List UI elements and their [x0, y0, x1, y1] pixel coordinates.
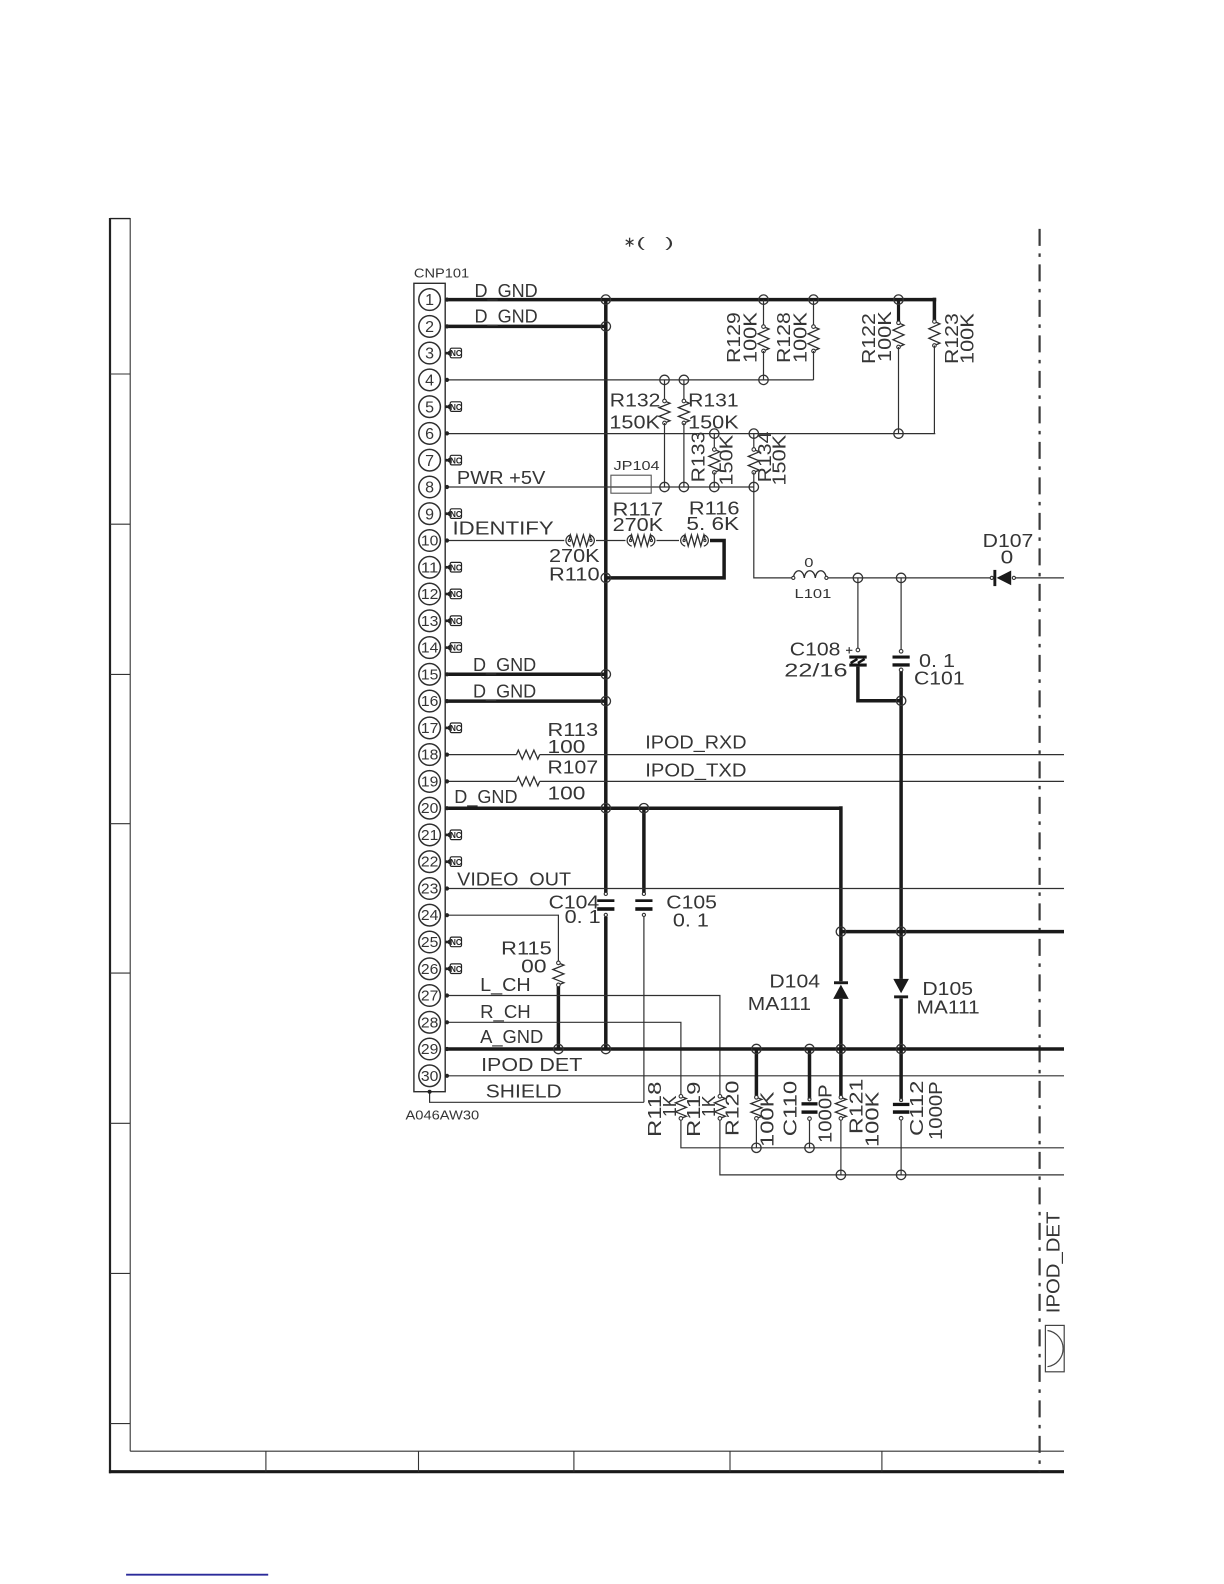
svg-text:NC: NC	[450, 456, 462, 465]
svg-text:NC: NC	[450, 858, 462, 867]
svg-text:29: 29	[421, 1042, 439, 1058]
resistor R121	[835, 1097, 846, 1118]
svg-text:D_GND: D_GND	[475, 307, 538, 328]
NC marker pin 7	[445, 459, 448, 462]
wire C101/C108 chain vertical	[900, 578, 902, 651]
junction dots bottom rails	[752, 1143, 761, 1152]
svg-text:VIDEO_OUT: VIDEO_OUT	[457, 870, 571, 891]
svg-text:C101: C101	[914, 669, 965, 689]
diode D105	[893, 979, 909, 993]
wire pin24 to R115	[445, 915, 558, 963]
svg-text:100: 100	[548, 784, 586, 804]
svg-text:24: 24	[421, 908, 439, 924]
svg-text:12: 12	[421, 587, 439, 603]
pin 3	[419, 342, 441, 364]
svg-text:SHIELD: SHIELD	[486, 1081, 562, 1101]
svg-text:100K: 100K	[875, 311, 895, 362]
connector stub at sheet edge	[1045, 1325, 1064, 1371]
wire IDENTIFY pin10	[445, 540, 564, 542]
wire R115 to A_GND	[557, 985, 561, 1049]
svg-text:R110: R110	[549, 565, 600, 585]
svg-text:MA111: MA111	[917, 998, 980, 1018]
svg-text:17: 17	[421, 721, 439, 737]
svg-text:26: 26	[421, 962, 439, 978]
connector shield terminal dot	[428, 1090, 432, 1094]
pin 24	[419, 904, 441, 926]
svg-text:R131: R131	[688, 391, 739, 411]
svg-text:D_GND: D_GND	[454, 787, 517, 808]
pin 9	[419, 503, 441, 525]
svg-text:D_GND: D_GND	[473, 655, 536, 676]
resistor R128	[813, 300, 815, 327]
wire D_GND pin1 bus (top)	[445, 298, 936, 302]
diode D104	[834, 981, 848, 984]
svg-text:JP104: JP104	[614, 458, 660, 473]
pin 14	[419, 637, 441, 659]
svg-text:6: 6	[425, 426, 434, 443]
svg-text:NC: NC	[450, 349, 462, 358]
wire C105 branch drop	[642, 808, 646, 894]
svg-text:0. 1: 0. 1	[673, 910, 709, 930]
footnote asterisk note	[626, 238, 634, 247]
wire D_GND pin2	[445, 325, 606, 329]
junction dots A_GND	[554, 1044, 563, 1053]
svg-text:NC: NC	[450, 563, 462, 572]
wire IPOD_RXD pin18	[445, 754, 516, 756]
resistor R120	[751, 1097, 762, 1118]
pin 8	[419, 476, 441, 498]
pin 11	[419, 557, 441, 579]
svg-text:5. 6K: 5. 6K	[686, 514, 739, 534]
svg-text:NC: NC	[450, 724, 462, 733]
revision underline (blue)	[126, 1574, 268, 1576]
svg-text:): )	[665, 234, 673, 250]
svg-text:NC: NC	[450, 965, 462, 974]
wire identify return to ground bus	[606, 541, 724, 578]
NC marker pin 14	[445, 646, 448, 649]
svg-text:150K: 150K	[770, 435, 790, 486]
NC marker pin 13	[445, 619, 448, 622]
pin 26	[419, 958, 441, 980]
svg-text:R107: R107	[548, 757, 599, 777]
wire R120 stub	[755, 1049, 759, 1097]
svg-text:11: 11	[421, 560, 439, 576]
svg-text:C108: C108	[790, 639, 841, 659]
capacitor C101	[899, 650, 903, 654]
svg-text:100K: 100K	[958, 313, 978, 364]
svg-text:13: 13	[421, 614, 439, 630]
inductor L101	[793, 571, 826, 578]
svg-text:23: 23	[421, 882, 439, 898]
wire D_GND pin20	[445, 806, 841, 810]
svg-text:R115: R115	[501, 938, 552, 958]
resistor R113	[516, 750, 539, 759]
svg-text:0: 0	[1001, 548, 1014, 568]
svg-text:100K: 100K	[758, 1092, 778, 1147]
svg-text:22/16: 22/16	[784, 661, 847, 681]
svg-text:9: 9	[425, 506, 434, 523]
svg-text:D_GND: D_GND	[475, 281, 538, 302]
resistor R132	[664, 380, 666, 401]
svg-text:1: 1	[425, 292, 434, 309]
svg-text:C112: C112	[907, 1081, 927, 1136]
capacitor C104	[597, 899, 614, 902]
svg-text:14: 14	[421, 641, 439, 657]
jumper JP104	[611, 475, 651, 493]
svg-text:0: 0	[804, 555, 813, 570]
pin 28	[419, 1012, 441, 1034]
svg-text:IPOD_TXD: IPOD_TXD	[645, 760, 746, 781]
pin 18	[419, 744, 441, 766]
junction dots pin6 net	[710, 429, 719, 438]
pin 6	[419, 423, 441, 445]
capacitor C110	[802, 1102, 818, 1105]
NC marker pin 17	[445, 727, 448, 730]
svg-text:150K: 150K	[688, 413, 739, 433]
wire D_GND vertical bus	[604, 300, 608, 894]
svg-text:(: (	[637, 234, 646, 250]
svg-text:10: 10	[421, 534, 439, 550]
pin 4	[419, 369, 441, 391]
svg-text:4: 4	[425, 373, 434, 390]
pin 29	[419, 1038, 441, 1060]
svg-text:1000P: 1000P	[816, 1084, 836, 1143]
connector CNP101 body	[414, 283, 445, 1091]
wire VIDEO_OUT pin23	[445, 888, 1064, 890]
svg-text:NC: NC	[450, 938, 462, 947]
svg-text:D105: D105	[922, 979, 973, 999]
svg-text:R132: R132	[610, 391, 661, 411]
pin 1	[419, 289, 441, 311]
pin 15	[419, 664, 441, 686]
svg-text:L_CH: L_CH	[480, 975, 531, 996]
resistor R107	[516, 777, 539, 786]
svg-text:2: 2	[425, 319, 434, 336]
svg-text:150K: 150K	[717, 435, 737, 486]
svg-text:21: 21	[421, 828, 439, 844]
svg-text:NC: NC	[450, 831, 462, 840]
NC marker pin 9	[445, 512, 448, 515]
svg-text:100K: 100K	[863, 1092, 883, 1147]
svg-text:20: 20	[421, 801, 439, 817]
svg-text:18: 18	[421, 748, 439, 764]
svg-text:270K: 270K	[549, 546, 600, 566]
svg-text:27: 27	[421, 989, 439, 1005]
wire A_GND pin29	[445, 1047, 1064, 1051]
svg-text:28: 28	[421, 1015, 439, 1031]
resistor R134	[753, 434, 755, 450]
pin 16	[419, 690, 441, 712]
svg-text:IPOD_DET: IPOD_DET	[1043, 1212, 1064, 1314]
svg-text:5: 5	[425, 399, 434, 416]
resistor R133	[713, 434, 715, 450]
wire R123 feed (corner down)	[933, 298, 937, 322]
NC marker pin 11	[445, 566, 448, 569]
NC marker pin 5	[445, 405, 448, 408]
svg-text:A_GND: A_GND	[480, 1027, 543, 1048]
NC marker pin 21	[445, 834, 448, 837]
svg-text:IDENTIFY: IDENTIFY	[453, 518, 554, 538]
svg-text:PWR +5V: PWR +5V	[457, 468, 545, 488]
pin 13	[419, 610, 441, 632]
diode D107	[990, 576, 993, 579]
svg-text:IPOD DET: IPOD DET	[481, 1055, 582, 1075]
wire R121 stub	[839, 1049, 843, 1097]
pin 17	[419, 717, 441, 739]
svg-text:C110: C110	[781, 1081, 801, 1136]
wire C110 stub	[808, 1049, 812, 1099]
pin 12	[419, 583, 441, 605]
svg-text:MA111: MA111	[748, 994, 811, 1014]
pin 10	[419, 530, 441, 552]
wire bottom rail A	[681, 1118, 1064, 1147]
resistor R123	[929, 322, 940, 346]
svg-text:3: 3	[425, 346, 434, 363]
wire PWR +5V pin8 net	[445, 486, 754, 488]
border tick marks left	[110, 373, 130, 375]
NC marker pin 12	[445, 593, 448, 596]
svg-text:00: 00	[521, 956, 546, 976]
svg-text:NC: NC	[450, 403, 462, 412]
svg-text:16: 16	[421, 694, 439, 710]
pin 20	[419, 797, 441, 819]
pin 2	[419, 316, 441, 338]
wire C108 branch	[857, 578, 859, 650]
svg-text:A046AW30: A046AW30	[406, 1107, 480, 1122]
pin 23	[419, 878, 441, 900]
junction dots ground rail	[836, 927, 845, 936]
svg-text:1K: 1K	[699, 1096, 719, 1118]
junction dots pin4 net	[660, 375, 669, 384]
wire bottom rail B	[720, 1118, 1064, 1175]
resistor R115	[553, 963, 564, 985]
svg-text:100: 100	[548, 737, 586, 757]
svg-text:100K: 100K	[791, 312, 811, 363]
wire D_GND pin15	[445, 673, 606, 677]
NC marker pin 25	[445, 941, 448, 944]
junction dots PWR net	[660, 482, 669, 491]
svg-text:R133: R133	[689, 432, 709, 483]
svg-text:NC: NC	[450, 644, 462, 653]
resistor R122	[897, 300, 900, 323]
border tick marks bottom	[265, 1451, 267, 1472]
svg-text:7: 7	[425, 453, 434, 470]
svg-text:R_CH: R_CH	[480, 1002, 531, 1023]
resistor R118	[675, 1096, 686, 1118]
svg-text:D104: D104	[769, 972, 820, 992]
wire PWR riser and feed through L101	[754, 487, 794, 578]
svg-text:22: 22	[421, 855, 439, 871]
wire IPOD_TXD pin19	[445, 780, 516, 782]
svg-text:25: 25	[421, 935, 439, 951]
capacitor C108 (electrolytic)	[856, 648, 860, 652]
wire pin20 drop to D104	[839, 806, 843, 981]
svg-text:270K: 270K	[613, 515, 664, 535]
NC marker pin 22	[445, 860, 448, 863]
capacitor C105	[635, 899, 652, 902]
page border left column	[109, 218, 111, 1473]
resistor R110	[566, 535, 571, 546]
svg-text:0. 1: 0. 1	[565, 907, 601, 927]
pin 21	[419, 824, 441, 846]
resistor R119	[714, 1096, 725, 1118]
pin 22	[419, 851, 441, 873]
NC marker pin 26	[445, 967, 448, 970]
pin 30	[419, 1065, 441, 1087]
wire ground rail y=931.6	[841, 930, 1064, 934]
resistor R117	[627, 535, 632, 546]
page border bottom	[130, 1450, 1064, 1452]
wire pin6 net	[445, 433, 935, 435]
wire IPOD DET pin30	[445, 1075, 1064, 1077]
pin 19	[419, 771, 441, 793]
pin 5	[419, 396, 441, 418]
pin 27	[419, 985, 441, 1007]
pin 25	[419, 931, 441, 953]
svg-text:19: 19	[421, 774, 439, 790]
svg-text:NC: NC	[450, 617, 462, 626]
NC marker pin 3	[445, 352, 448, 355]
wire SHIELD stub	[430, 1092, 644, 1103]
resistor R129	[763, 300, 765, 327]
svg-text:D_GND: D_GND	[473, 681, 536, 702]
svg-text:NC: NC	[450, 590, 462, 599]
resistor R131	[683, 380, 685, 401]
svg-text:100K: 100K	[741, 312, 761, 363]
wire D105 drop	[899, 932, 903, 979]
svg-text:150K: 150K	[609, 413, 660, 433]
wire pin4 net	[445, 379, 813, 381]
sheet boundary dash-dot line	[1038, 229, 1040, 1472]
svg-text:L101: L101	[795, 586, 832, 601]
wire C112 stub	[899, 1049, 903, 1100]
svg-text:R120: R120	[723, 1081, 743, 1136]
junction dots D_GND bus	[601, 295, 610, 304]
svg-text:8: 8	[425, 480, 434, 497]
svg-text:1000P: 1000P	[926, 1081, 946, 1140]
svg-text:30: 30	[421, 1069, 439, 1085]
svg-text:1K: 1K	[660, 1096, 680, 1118]
wire L_CH pin27	[445, 996, 720, 1097]
pin 7	[419, 449, 441, 471]
resistor R116	[681, 535, 686, 546]
svg-text:CNP101: CNP101	[414, 266, 469, 281]
wire R_CH pin28	[445, 1022, 681, 1096]
wire D_GND pin16	[445, 699, 606, 703]
capacitor C112	[893, 1103, 910, 1106]
svg-text:IPOD_RXD: IPOD_RXD	[645, 733, 746, 754]
svg-text:15: 15	[421, 667, 439, 683]
